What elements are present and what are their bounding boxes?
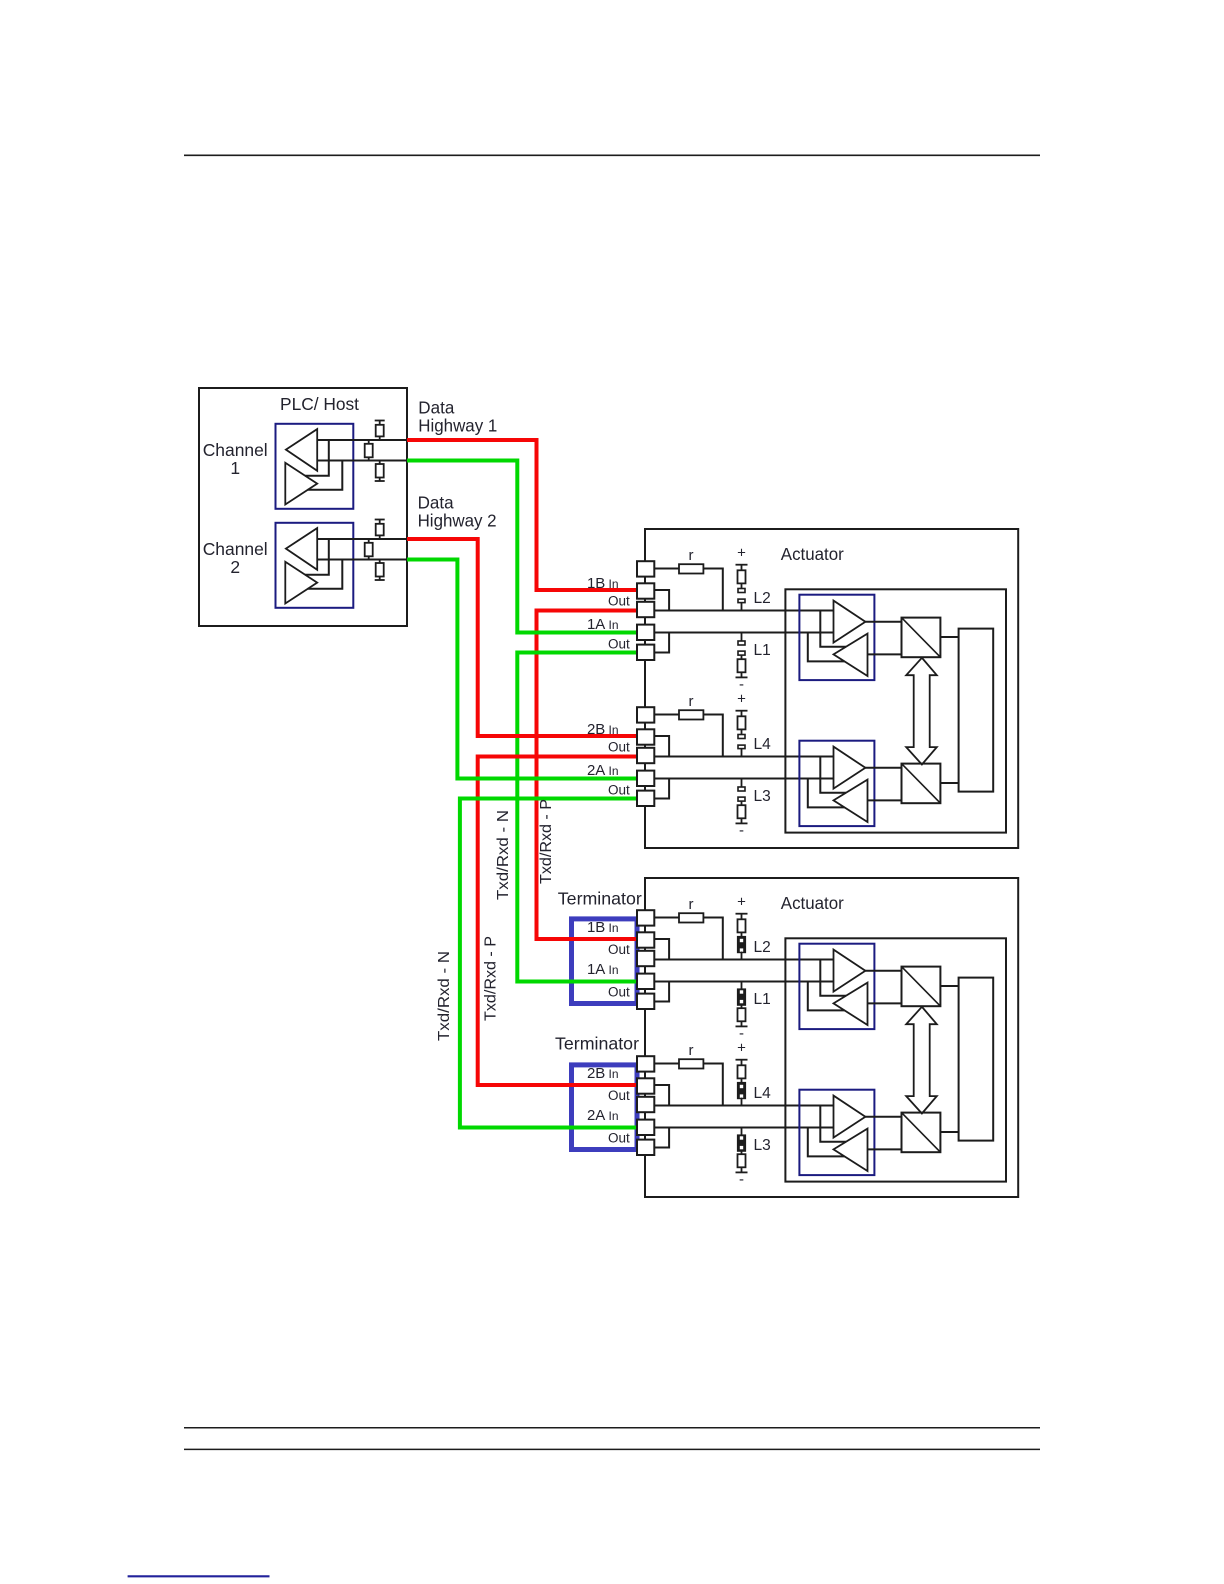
- wire 1A out loop actuator 1: [654, 633, 669, 653]
- svg-text:2A: 2A: [587, 762, 605, 779]
- transceiver sub-box actuator 2 ch2: [799, 1090, 874, 1175]
- receiver triangle channel 1: [286, 429, 317, 471]
- wire 1B in loop actuator 1: [654, 590, 669, 611]
- svg-text:Txd/Rxd - N: Txd/Rxd - N: [495, 810, 512, 900]
- terminal square 1B in actuator 2: [637, 932, 654, 947]
- resistor r actuator 2 1: [654, 913, 723, 959]
- terminal square 1aux actuator 2: [637, 910, 654, 925]
- label Channel 1: [203, 440, 268, 478]
- svg-text:In: In: [609, 577, 619, 591]
- svg-text:Out: Out: [608, 1131, 630, 1146]
- footer link underline: [128, 1575, 270, 1577]
- label 2B In: [587, 1065, 619, 1082]
- svg-text:Channel: Channel: [203, 440, 268, 460]
- svg-text:1A: 1A: [587, 616, 605, 633]
- wire 1B out bus actuator 1: [654, 610, 833, 612]
- svg-text:In: In: [609, 723, 619, 737]
- resistor pull-down channel 2: [375, 560, 385, 581]
- resistor r actuator 1 1: [654, 564, 723, 610]
- lamp L2 actuator 2: [736, 893, 748, 959]
- driver triangle actuator 1 ch2: [834, 747, 866, 789]
- svg-text:+: +: [737, 690, 746, 707]
- codec box actuator 2 ch2: [902, 1113, 941, 1153]
- wire 2A out loop actuator 2: [654, 1128, 669, 1148]
- wire 1A in bus actuator 1: [654, 632, 833, 634]
- lamp L1 actuator 1: [736, 633, 748, 694]
- label Data Highway 2: [418, 493, 497, 531]
- svg-text:r: r: [689, 1042, 694, 1059]
- svg-text:Out: Out: [608, 783, 630, 798]
- svg-text:L1: L1: [754, 642, 771, 659]
- wire codec to logic actuator 1 ch2: [940, 782, 958, 784]
- wire B line channel 2: [317, 538, 407, 540]
- wire driver output actuator 2 ch1: [865, 970, 901, 972]
- driver triangle channel 1: [285, 463, 317, 505]
- wire codec to logic actuator 2 ch2: [940, 1131, 958, 1133]
- terminal square 2B in actuator 2: [637, 1078, 654, 1093]
- wire receiver tap upper actuator 1 ch1: [820, 611, 846, 647]
- top rule: [184, 154, 1040, 156]
- wire 1A Out actuator1 to terminator 1A In (green): [517, 653, 637, 982]
- wire driver input lower channel 1: [308, 461, 343, 490]
- terminal square 1aux actuator 1: [637, 561, 654, 576]
- receiver triangle actuator 1 ch2: [834, 780, 868, 822]
- svg-text:1B: 1B: [587, 919, 605, 936]
- wire receiver tap lower actuator 1 ch1: [808, 633, 845, 662]
- svg-text:Out: Out: [608, 740, 630, 755]
- resistor pull-up channel 1: [375, 421, 385, 441]
- svg-text:1A: 1A: [587, 961, 605, 978]
- svg-text:Channel: Channel: [203, 539, 268, 559]
- svg-text:r: r: [689, 896, 694, 913]
- terminal square 1B out actuator 2: [637, 951, 654, 966]
- terminal square 2B out actuator 1: [637, 748, 654, 763]
- wire receiver input actuator 1 ch2: [868, 799, 902, 801]
- resistor pull-down channel 1: [375, 461, 385, 482]
- svg-text:-: -: [739, 822, 744, 839]
- label 1A In: [587, 616, 619, 633]
- wire 2B in loop actuator 2: [654, 1085, 669, 1106]
- wire 1A out loop actuator 2: [654, 982, 669, 1002]
- label 1B In: [587, 919, 619, 936]
- resistor r actuator 2 2: [654, 1059, 723, 1105]
- svg-text:Data: Data: [418, 493, 454, 513]
- svg-text:Out: Out: [608, 985, 630, 1000]
- svg-text:1: 1: [230, 458, 240, 478]
- lamp L3 actuator 1: [736, 779, 748, 840]
- svg-text:2B: 2B: [587, 721, 605, 738]
- driver triangle actuator 2 ch2: [834, 1096, 866, 1138]
- terminal square 2B in actuator 1: [637, 729, 654, 744]
- svg-text:In: In: [609, 1067, 619, 1081]
- label Channel 2: [203, 539, 268, 577]
- transceiver sub-box actuator 2 ch1: [799, 944, 874, 1029]
- wire 2B out bus actuator 2: [654, 1105, 833, 1107]
- terminal square 1A out actuator 2: [637, 994, 654, 1009]
- terminal square 1B in actuator 1: [637, 583, 654, 598]
- wire 1A in bus actuator 2: [654, 981, 833, 983]
- wire B line channel 1: [317, 439, 407, 441]
- svg-text:-: -: [739, 1171, 744, 1188]
- svg-text:Txd/Rxd - P: Txd/Rxd - P: [483, 936, 500, 1021]
- svg-text:1B: 1B: [587, 575, 605, 592]
- codec box actuator 2 ch1: [902, 967, 941, 1007]
- svg-text:Txd/Rxd - P: Txd/Rxd - P: [538, 799, 555, 884]
- label 1A In: [587, 961, 619, 978]
- terminal square 2aux actuator 1: [637, 707, 654, 722]
- terminal square 2aux actuator 2: [637, 1056, 654, 1071]
- svg-text:PLC/ Host: PLC/ Host: [280, 394, 359, 414]
- wire driver input upper channel 1: [305, 440, 329, 476]
- bottom rule 1: [184, 1427, 1040, 1429]
- wire 2A out loop actuator 1: [654, 779, 669, 799]
- wire 1B out bus actuator 2: [654, 959, 833, 961]
- lamp L3 actuator 2: [736, 1128, 748, 1189]
- lamp L1 actuator 2: [736, 982, 748, 1043]
- driver triangle actuator 1 ch1: [834, 601, 866, 643]
- svg-text:In: In: [609, 1109, 619, 1123]
- transceiver sub-box channel 1: [276, 424, 354, 509]
- resistor termination channel 1: [365, 440, 373, 461]
- lamp L2 actuator 1: [736, 544, 748, 610]
- svg-text:In: In: [609, 963, 619, 977]
- wire driver output actuator 2 ch2: [865, 1116, 901, 1118]
- terminal square 1A in actuator 1: [637, 625, 654, 640]
- svg-text:L3: L3: [754, 1137, 771, 1154]
- receiver triangle actuator 1 ch1: [834, 634, 868, 676]
- wire data highway 1 B (red) PLC to actuator1 1B In: [407, 440, 637, 590]
- svg-text:r: r: [689, 693, 694, 710]
- wire 2A in bus actuator 2: [654, 1127, 833, 1129]
- svg-text:2A: 2A: [587, 1107, 605, 1124]
- data exchange arrow actuator 2: [906, 1007, 937, 1114]
- wire receiver input actuator 2 ch2: [868, 1148, 902, 1150]
- wire receiver input actuator 1 ch1: [868, 653, 902, 655]
- wire codec to logic actuator 1 ch1: [940, 636, 958, 638]
- svg-text:Actuator: Actuator: [781, 893, 844, 913]
- svg-text:In: In: [609, 764, 619, 778]
- wire 1B in loop actuator 2: [654, 939, 669, 960]
- resistor r actuator 1 2: [654, 710, 723, 756]
- data exchange arrow actuator 1: [906, 658, 937, 765]
- receiver triangle actuator 2 ch1: [834, 983, 868, 1025]
- terminal square 1B out actuator 1: [637, 602, 654, 617]
- svg-text:Txd/Rxd - N: Txd/Rxd - N: [436, 951, 453, 1041]
- svg-text:Terminator: Terminator: [558, 889, 642, 909]
- transceiver sub-box actuator 1 ch1: [799, 595, 874, 680]
- svg-text:Out: Out: [608, 594, 630, 609]
- svg-text:Terminator: Terminator: [555, 1034, 639, 1054]
- wire receiver tap lower actuator 2 ch2: [808, 1128, 845, 1157]
- svg-text:Data: Data: [418, 398, 454, 418]
- wire 2A in bus actuator 1: [654, 778, 833, 780]
- label Data Highway 1: [418, 398, 497, 436]
- svg-text:+: +: [737, 893, 746, 910]
- wire receiver tap lower actuator 1 ch2: [808, 779, 845, 808]
- terminal square 2B out actuator 2: [637, 1097, 654, 1112]
- codec box actuator 1 ch1: [902, 618, 941, 658]
- svg-text:In: In: [609, 618, 619, 632]
- svg-text:2B: 2B: [587, 1065, 605, 1082]
- svg-text:Out: Out: [608, 942, 630, 957]
- wire A line channel 2: [317, 559, 407, 561]
- actuator 2 outer box: [645, 878, 1018, 1197]
- actuator 1 outer box: [645, 529, 1018, 848]
- svg-text:L2: L2: [754, 939, 771, 956]
- wire 2B in loop actuator 1: [654, 736, 669, 757]
- wire driver input lower channel 2: [308, 560, 343, 589]
- svg-text:r: r: [689, 547, 694, 564]
- transceiver sub-box actuator 1 ch2: [799, 741, 874, 826]
- driver triangle channel 2: [285, 562, 317, 604]
- label 1B In: [587, 575, 619, 592]
- svg-text:L2: L2: [754, 590, 771, 607]
- driver triangle actuator 2 ch1: [834, 950, 866, 992]
- svg-text:Actuator: Actuator: [781, 544, 844, 564]
- wire receiver input actuator 2 ch1: [868, 1002, 902, 1004]
- wire driver output actuator 1 ch2: [865, 767, 901, 769]
- terminal square 1A in actuator 2: [637, 974, 654, 989]
- label 2B In: [587, 721, 619, 738]
- actuator 2 inner electronics box: [785, 938, 1006, 1181]
- wire data highway 1 A (green) PLC to actuator1 1A In: [407, 461, 637, 633]
- label 2A In: [587, 762, 619, 779]
- terminal square 2A in actuator 1: [637, 771, 654, 786]
- transceiver sub-box channel 2: [276, 523, 354, 608]
- svg-text:L1: L1: [754, 991, 771, 1008]
- wire receiver tap upper actuator 1 ch2: [820, 757, 846, 793]
- actuator 1 logic block: [959, 629, 994, 792]
- resistor termination channel 2: [365, 539, 373, 560]
- receiver triangle actuator 2 ch2: [834, 1129, 868, 1171]
- wire driver output actuator 1 ch1: [865, 621, 901, 623]
- lamp L4 actuator 1: [736, 690, 748, 756]
- actuator 1 inner electronics box: [785, 589, 1006, 832]
- terminator 1 box: [572, 919, 638, 1004]
- label 2A In: [587, 1107, 619, 1124]
- terminator 2 box: [572, 1065, 638, 1150]
- wire A line channel 1: [317, 460, 407, 462]
- svg-text:+: +: [737, 1039, 746, 1056]
- wire data highway 2 A (green) PLC to actuator1 2A In: [407, 560, 637, 779]
- actuator 2 logic block: [959, 978, 994, 1141]
- svg-text:2: 2: [230, 557, 240, 577]
- lamp L4 actuator 2: [736, 1039, 748, 1105]
- wire 2A Out actuator1 to terminator 2A In (green): [460, 799, 637, 1128]
- resistor pull-up channel 2: [375, 520, 385, 540]
- terminal square 2A out actuator 2: [637, 1140, 654, 1155]
- terminal square 2A out actuator 1: [637, 791, 654, 806]
- wire receiver tap upper actuator 2 ch1: [820, 960, 846, 996]
- codec box actuator 1 ch2: [902, 764, 941, 804]
- svg-text:In: In: [609, 921, 619, 935]
- svg-text:Highway 2: Highway 2: [418, 511, 497, 531]
- svg-text:+: +: [737, 544, 746, 561]
- wire codec to logic actuator 2 ch1: [940, 985, 958, 987]
- wire receiver tap lower actuator 2 ch1: [808, 982, 845, 1011]
- svg-text:L3: L3: [754, 788, 771, 805]
- svg-text:Out: Out: [608, 1088, 630, 1103]
- wire data highway 2 B (red) PLC to actuator1 2B In: [407, 539, 637, 736]
- terminal square 1A out actuator 1: [637, 645, 654, 660]
- wire 2B Out actuator1 to terminator 2B In (red): [478, 757, 637, 1086]
- receiver triangle channel 2: [286, 528, 317, 570]
- svg-text:L4: L4: [754, 736, 772, 753]
- svg-text:L4: L4: [754, 1085, 772, 1102]
- wire driver input upper channel 2: [305, 539, 329, 575]
- svg-text:Out: Out: [608, 637, 630, 652]
- PLC/Host box: [199, 388, 407, 626]
- wire 2B out bus actuator 1: [654, 756, 833, 758]
- svg-text:Highway 1: Highway 1: [418, 416, 497, 436]
- terminal square 2A in actuator 2: [637, 1120, 654, 1135]
- wire receiver tap upper actuator 2 ch2: [820, 1106, 846, 1142]
- bottom rule 2: [184, 1448, 1040, 1450]
- wire 1B Out actuator1 to terminator 1B In (red): [537, 611, 638, 940]
